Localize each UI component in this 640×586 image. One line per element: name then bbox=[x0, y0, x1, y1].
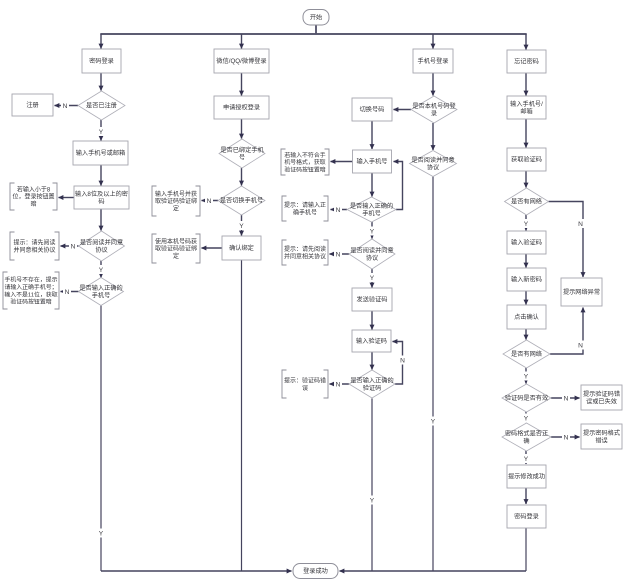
svg-text:确: 确 bbox=[523, 437, 529, 445]
svg-text:Y: Y bbox=[370, 228, 375, 235]
svg-text:验证码是否有效: 验证码是否有效 bbox=[505, 394, 548, 402]
svg-text:并同意相关协议: 并同意相关协议 bbox=[13, 246, 55, 254]
svg-text:误: 误 bbox=[302, 384, 308, 392]
svg-text:并同意相关协议: 并同意相关协议 bbox=[284, 252, 326, 260]
svg-text:N: N bbox=[65, 289, 70, 296]
svg-text:机号格式，获取: 机号格式，获取 bbox=[284, 158, 325, 166]
svg-text:输入新密码: 输入新密码 bbox=[511, 276, 542, 284]
svg-text:手机号: 手机号 bbox=[92, 291, 111, 299]
svg-text:是否输入正确的: 是否输入正确的 bbox=[350, 202, 393, 210]
svg-text:N: N bbox=[564, 395, 569, 402]
svg-text:N: N bbox=[63, 103, 68, 110]
svg-text:Y: Y bbox=[370, 275, 375, 282]
svg-text:输入8位及以上的密: 输入8位及以上的密 bbox=[75, 190, 128, 198]
svg-text:Y: Y bbox=[431, 418, 436, 425]
svg-text:Y: Y bbox=[99, 267, 104, 274]
svg-text:Y: Y bbox=[239, 223, 244, 230]
svg-text:微信/QQ/微博登录: 微信/QQ/微博登录 bbox=[216, 57, 266, 65]
svg-text:是否阅读并同意: 是否阅读并同意 bbox=[80, 238, 123, 246]
svg-text:手机号登录: 手机号登录 bbox=[418, 57, 449, 65]
svg-text:协议: 协议 bbox=[95, 246, 108, 254]
svg-text:提示网络异常: 提示网络异常 bbox=[563, 288, 600, 296]
svg-text:获取验证码: 获取验证码 bbox=[511, 156, 542, 164]
svg-text:若输入不符合手: 若输入不符合手 bbox=[284, 151, 325, 159]
svg-text:是否有网络: 是否有网络 bbox=[511, 350, 542, 358]
svg-text:Y: Y bbox=[524, 456, 529, 463]
svg-text:密码登录: 密码登录 bbox=[514, 513, 539, 521]
svg-text:切换号码: 切换号码 bbox=[360, 106, 385, 114]
svg-text:Y: Y bbox=[524, 415, 529, 422]
svg-text:定: 定 bbox=[173, 204, 179, 212]
svg-text:提示：验证码错: 提示：验证码错 bbox=[284, 376, 326, 384]
svg-text:协议: 协议 bbox=[366, 254, 379, 262]
svg-text:输入手机号或邮箱: 输入手机号或邮箱 bbox=[76, 149, 126, 157]
svg-text:错误: 错误 bbox=[595, 436, 607, 444]
svg-text:提示：请输入正: 提示：请输入正 bbox=[284, 201, 326, 209]
svg-text:N: N bbox=[400, 357, 405, 364]
svg-text:开始: 开始 bbox=[310, 13, 322, 21]
svg-text:取验证码验证绑: 取验证码验证绑 bbox=[155, 197, 197, 205]
svg-text:是否已绑定手机: 是否已绑定手机 bbox=[220, 146, 264, 154]
svg-text:手机号: 手机号 bbox=[362, 209, 381, 217]
svg-text:密码格式是否正: 密码格式是否正 bbox=[505, 429, 548, 437]
svg-text:忘记密码: 忘记密码 bbox=[514, 58, 539, 66]
svg-text:N: N bbox=[336, 381, 341, 388]
svg-text:发送验证码: 发送验证码 bbox=[357, 296, 388, 304]
svg-text:暗: 暗 bbox=[30, 200, 36, 208]
svg-text:定: 定 bbox=[173, 252, 179, 260]
svg-text:提示：请先阅读: 提示：请先阅读 bbox=[284, 245, 326, 253]
svg-text:确手机号: 确手机号 bbox=[293, 208, 317, 216]
svg-text:N: N bbox=[336, 207, 341, 214]
svg-text:验证码: 验证码 bbox=[363, 384, 382, 392]
svg-text:申请授权登录: 申请授权登录 bbox=[223, 104, 260, 112]
svg-text:N: N bbox=[564, 434, 569, 441]
svg-text:是否阅读并同意: 是否阅读并同意 bbox=[411, 156, 454, 164]
svg-text:Y: Y bbox=[99, 530, 104, 537]
svg-text:是否切换手机号: 是否切换手机号 bbox=[220, 197, 263, 205]
svg-text:取验证码验证绑: 取验证码验证绑 bbox=[155, 245, 197, 253]
svg-text:输入手机号并获: 输入手机号并获 bbox=[155, 190, 197, 198]
svg-text:输入验证码: 输入验证码 bbox=[511, 239, 542, 247]
svg-text:Y: Y bbox=[524, 221, 529, 228]
svg-text:N: N bbox=[578, 342, 583, 349]
svg-text:输入不是11位，获取: 输入不是11位，获取 bbox=[4, 290, 57, 298]
svg-text:确认绑定: 确认绑定 bbox=[229, 244, 254, 252]
svg-text:点击确认: 点击确认 bbox=[514, 313, 539, 321]
svg-text:提示验证码错: 提示验证码错 bbox=[583, 390, 620, 398]
svg-text:登录成功: 登录成功 bbox=[303, 567, 328, 575]
svg-text:输入验证码: 输入验证码 bbox=[356, 337, 387, 345]
svg-text:验证码按钮置暗: 验证码按钮置暗 bbox=[284, 165, 325, 173]
svg-text:录: 录 bbox=[431, 109, 437, 117]
svg-text:验证码按钮置暗: 验证码按钮置暗 bbox=[10, 298, 51, 306]
svg-text:Y: Y bbox=[99, 129, 104, 136]
svg-text:注册: 注册 bbox=[26, 101, 38, 109]
svg-text:密码登录: 密码登录 bbox=[89, 57, 114, 65]
svg-text:若输入小于8: 若输入小于8 bbox=[17, 185, 51, 193]
svg-text:提示修改成功: 提示修改成功 bbox=[508, 473, 545, 481]
svg-text:码: 码 bbox=[98, 197, 104, 205]
svg-text:请输入正确手机号；: 请输入正确手机号； bbox=[4, 283, 57, 291]
svg-text:是否已注册: 是否已注册 bbox=[86, 102, 117, 110]
svg-text:邮箱: 邮箱 bbox=[520, 107, 532, 115]
svg-text:N: N bbox=[578, 221, 583, 228]
svg-text:是否输入正确的: 是否输入正确的 bbox=[350, 376, 393, 384]
svg-text:N: N bbox=[71, 243, 76, 250]
svg-text:是否阅读并同意: 是否阅读并同意 bbox=[350, 246, 393, 254]
svg-text:协议: 协议 bbox=[427, 163, 440, 171]
svg-text:输入手机号/: 输入手机号/ bbox=[510, 100, 543, 108]
svg-text:提示密码格式: 提示密码格式 bbox=[583, 429, 620, 437]
svg-text:Y: Y bbox=[524, 373, 529, 380]
svg-text:误或已失效: 误或已失效 bbox=[586, 397, 617, 405]
svg-text:N: N bbox=[207, 198, 212, 205]
svg-text:位，登录按钮置: 位，登录按钮置 bbox=[12, 193, 54, 201]
svg-text:使用本机号码获: 使用本机号码获 bbox=[155, 237, 197, 245]
svg-text:提示：请先阅读: 提示：请先阅读 bbox=[13, 238, 55, 246]
svg-text:是否有网络: 是否有网络 bbox=[511, 198, 542, 206]
svg-text:手机号不存在，提示: 手机号不存在，提示 bbox=[4, 275, 57, 283]
svg-text:是否本机号码登: 是否本机号码登 bbox=[412, 102, 456, 110]
svg-text:是否输入正确的: 是否输入正确的 bbox=[79, 284, 122, 292]
svg-text:N: N bbox=[336, 251, 341, 258]
svg-text:Y: Y bbox=[370, 497, 375, 504]
svg-text:号: 号 bbox=[239, 154, 245, 161]
svg-text:输入手机号: 输入手机号 bbox=[357, 158, 388, 166]
